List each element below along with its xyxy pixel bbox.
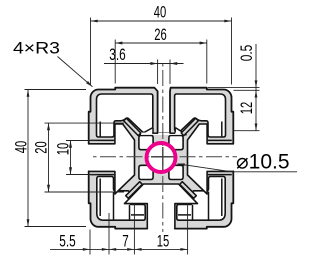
magenta bore highlight ring [147,143,176,172]
core hole top-right [139,165,153,179]
label 4xR3 (corner radius callout) [13,39,93,87]
svg-text:40: 40 [12,141,30,154]
dimension chain 5.5 / 7 / 15 (bottom) [50,204,188,255]
cavity top-left block [97,94,153,137]
dimension 20 (slot boss span) [33,123,125,192]
cavity top slot left flank [140,128,153,135]
web top-right [181,118,198,135]
web bottom-right [180,182,197,199]
cavity top-right block [175,94,226,137]
cavity left slot [89,124,135,194]
inner wall detail lines [90,122,232,221]
core hole top-left [139,136,153,150]
label dia 10.5 (center bore callout) [178,151,298,174]
cavity bottom-left block [97,177,145,221]
svg-text:5.5: 5.5 [59,233,76,251]
web top-left [124,118,141,135]
svg-text:⌀10.5: ⌀10.5 [236,151,290,174]
cavity top slot right flank [175,128,186,135]
cavity right slot [188,124,234,194]
horizontal centerline [93,156,237,158]
dimension 10 (slot cavity height) [54,141,97,175]
cavity bottom slot [125,184,198,229]
web bottom-left [126,182,143,199]
svg-text:10: 10 [54,143,72,156]
svg-text:7: 7 [122,233,129,251]
svg-text:20: 20 [33,141,51,154]
extrusion profile outline [89,88,234,229]
center bore [148,145,174,171]
dimension 40 left (overall height) [12,90,86,227]
svg-text:4×R3: 4×R3 [13,39,60,58]
cavity bottom-right block [177,177,225,221]
dimension 12 (corner block depth) [234,102,260,131]
dimension 0.5 (face step height) [208,44,260,131]
svg-text:26: 26 [154,26,167,44]
core hole bottom-right [169,165,183,179]
dimension 40 top (overall width) [91,4,232,85]
svg-text:3.6: 3.6 [109,46,126,64]
vertical centerline [162,62,164,232]
svg-text:40: 40 [154,4,167,22]
core hole bottom-left [169,136,183,150]
svg-text:0.5: 0.5 [238,45,256,62]
gap under top slot tongues [141,133,182,135]
dimension 3.6 (top slot opening) [104,46,184,84]
center mark cross [151,156,176,158]
dimension 26 (raised face width) [115,26,207,84]
svg-text:15: 15 [157,233,170,251]
svg-text:12: 12 [238,102,256,115]
